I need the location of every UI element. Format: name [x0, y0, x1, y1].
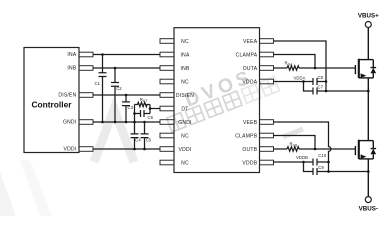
wire INB net	[93, 67, 160, 69]
U1 pin OUTB stub	[260, 147, 274, 152]
QA source stub	[359, 77, 374, 79]
capacitor C5	[141, 122, 149, 149]
capacitor C8	[313, 78, 326, 85]
RDT C6 right vertical	[149, 105, 151, 114]
node INA/C1	[101, 53, 104, 56]
svg-text:OUTB: OUTB	[242, 147, 257, 153]
svg-text:INB: INB	[180, 66, 190, 72]
U1 left pin stubs	[160, 39, 174, 165]
resistor RGB	[287, 147, 299, 151]
svg-text:CLAMPA: CLAMPA	[236, 53, 258, 59]
svg-text:INB: INB	[67, 66, 77, 72]
capacitor C2	[111, 68, 119, 122]
svg-text:VBUS+: VBUS+	[358, 13, 379, 20]
node C10/VEEB junction	[327, 161, 330, 164]
node VDDA junction	[302, 80, 305, 83]
svg-text:VDDB: VDDB	[242, 161, 257, 167]
wire INA net	[93, 54, 160, 56]
svg-text:Controller: Controller	[31, 99, 72, 109]
wire OUTB lead	[274, 148, 288, 150]
U1 right pin labels	[235, 39, 257, 167]
U1 pin 3 INB stub	[160, 66, 174, 71]
svg-text:C2: C2	[116, 86, 122, 91]
controller pin INB	[79, 66, 93, 71]
svg-text:C10: C10	[318, 153, 327, 158]
svg-text:NC: NC	[181, 80, 189, 86]
wire GNDI net	[93, 121, 160, 123]
node VDDI junctions	[133, 148, 136, 151]
svg-text:VDDA: VDDA	[242, 80, 257, 86]
watermark text OVOS	[182, 66, 256, 112]
VBUS- terminal	[365, 197, 371, 203]
capacitor C6	[135, 110, 151, 117]
svg-text:VDDI: VDDI	[179, 147, 192, 153]
QA source arrow	[361, 73, 367, 78]
svg-text:INA: INA	[180, 53, 190, 59]
node gate B junction	[314, 148, 317, 151]
svg-text:C7: C7	[318, 85, 324, 90]
U1 pin VDDB stub	[260, 160, 274, 165]
node C8/VEEA junction	[325, 80, 328, 83]
QA body diode triangle	[371, 68, 377, 73]
watermark faint dash	[283, 129, 303, 137]
resistor RDT	[135, 102, 151, 106]
VBUS+ terminal	[365, 22, 371, 28]
capacitor C10	[313, 159, 329, 166]
MOSFET QA	[355, 28, 376, 141]
controller pin DIS/EN	[79, 93, 93, 98]
wire DIS/EN net	[93, 94, 160, 96]
capacitor C4	[131, 122, 139, 149]
watermark glyph blocks	[167, 77, 280, 132]
wire VDDA net	[274, 82, 314, 92]
wire VEEB net	[274, 122, 331, 172]
QB channel bar	[358, 140, 360, 159]
U1 pin 2 INA stub	[160, 52, 174, 57]
node DT junction	[149, 107, 152, 110]
svg-text:VEEA: VEEA	[243, 39, 258, 45]
svg-text:VDDI: VDDI	[64, 147, 77, 153]
QB source vertical	[367, 159, 369, 197]
svg-text:DT: DT	[181, 107, 188, 113]
svg-text:OUTA: OUTA	[243, 66, 258, 72]
QB body diode triangle	[371, 149, 377, 154]
U1 pin CLAMPA stub	[260, 52, 274, 57]
svg-text:GNDI: GNDI	[63, 120, 77, 126]
node C6 left junction	[133, 112, 136, 115]
QA source vertical / phase node	[367, 78, 369, 141]
node VDDB junction	[302, 161, 305, 164]
QB gate bar	[354, 146, 356, 155]
resistor RGA	[287, 66, 299, 70]
capacitor C3	[122, 95, 130, 122]
svg-text:GNDI: GNDI	[178, 120, 192, 126]
U1 pin 1 NC stub	[160, 39, 174, 44]
main wires	[93, 41, 368, 175]
svg-text:VEEB: VEEB	[243, 120, 258, 126]
U1 pin 6 DT stub	[160, 106, 174, 111]
node gate A junction	[314, 67, 317, 70]
QB source arrow	[361, 154, 367, 159]
component value labels	[95, 60, 327, 170]
svg-text:C3: C3	[128, 105, 134, 110]
capacitor C1	[99, 55, 107, 123]
MOSFET QB	[355, 140, 376, 197]
U1 pin 9 VDDI stub	[160, 147, 174, 152]
watermark corner streak	[0, 172, 16, 216]
node phase B junction	[367, 170, 370, 173]
QA gate bar	[354, 65, 356, 74]
node C9/VEEB junction	[327, 170, 330, 173]
wire VEEA net	[274, 41, 327, 91]
svg-text:C8: C8	[318, 75, 324, 80]
U1 pin VEEA stub	[260, 39, 274, 44]
U1 pin VEEB stub	[260, 120, 274, 125]
svg-text:NC: NC	[181, 39, 189, 45]
wire CLAMPA net	[274, 55, 316, 69]
QA channel bar	[358, 59, 360, 78]
svg-text:C9: C9	[318, 165, 324, 170]
wire CLAMPB net	[274, 136, 316, 150]
controller pin INA	[79, 52, 93, 57]
svg-text:INA: INA	[67, 52, 77, 58]
U1 left pin labels	[176, 39, 194, 167]
wire OUTA lead	[274, 67, 288, 69]
node phase A junction	[367, 90, 370, 93]
gate driver U1 box	[174, 28, 260, 173]
RDT C6 left vertical to GNDI	[134, 105, 136, 123]
svg-text:C4: C4	[135, 138, 141, 143]
svg-text:VDDA: VDDA	[294, 75, 306, 80]
wire gate B	[299, 148, 355, 150]
svg-text:C5: C5	[146, 138, 152, 143]
svg-text:NC: NC	[181, 161, 189, 167]
QB drain stub	[359, 140, 374, 142]
svg-text:C1: C1	[95, 81, 101, 86]
U1 pin CLAMPB stub	[260, 133, 274, 138]
controller U2 box	[24, 48, 79, 153]
QB source stub	[359, 158, 374, 160]
svg-text:NC: NC	[181, 134, 189, 140]
wire VDDI net	[93, 148, 160, 150]
U1 right pin stubs	[260, 39, 274, 165]
U1 pin 8 NC stub	[160, 133, 174, 138]
svg-text:C6: C6	[148, 115, 154, 120]
node GNDI junctions	[101, 121, 104, 124]
node DIS/C3	[125, 94, 128, 97]
U1 pin 4 NC stub	[160, 79, 174, 84]
wire gate A	[299, 67, 355, 69]
svg-text:CLAMPB: CLAMPB	[235, 134, 257, 140]
wire VDDB net	[274, 162, 314, 172]
U1 pin 7 GNDI stub	[160, 120, 174, 125]
U1 pin 5 DIS/EN stub	[160, 93, 174, 98]
capacitor C9	[313, 168, 368, 175]
QB body diode leads	[371, 141, 377, 159]
watermark chevron	[94, 109, 134, 162]
node C7/VEEA junction	[325, 90, 328, 93]
node INB/C2	[114, 67, 117, 70]
U1 pin OUTA stub	[260, 66, 274, 71]
QA drain stub	[359, 59, 374, 61]
wire DT net	[150, 108, 160, 110]
U1 pin 10 NC stub	[160, 160, 174, 165]
svg-text:DIS/EN: DIS/EN	[176, 93, 194, 99]
svg-text:VBUS-: VBUS-	[359, 206, 378, 213]
capacitor C7	[313, 88, 368, 95]
svg-text:VDDB: VDDB	[296, 155, 308, 160]
controller pin GNDI	[79, 120, 93, 125]
QA body diode leads	[371, 60, 377, 78]
QA drain vertical	[367, 28, 369, 60]
U1 pin VDDA stub	[260, 79, 274, 84]
svg-text:DIS/EN: DIS/EN	[58, 93, 76, 99]
controller pin VDDI	[79, 147, 93, 152]
